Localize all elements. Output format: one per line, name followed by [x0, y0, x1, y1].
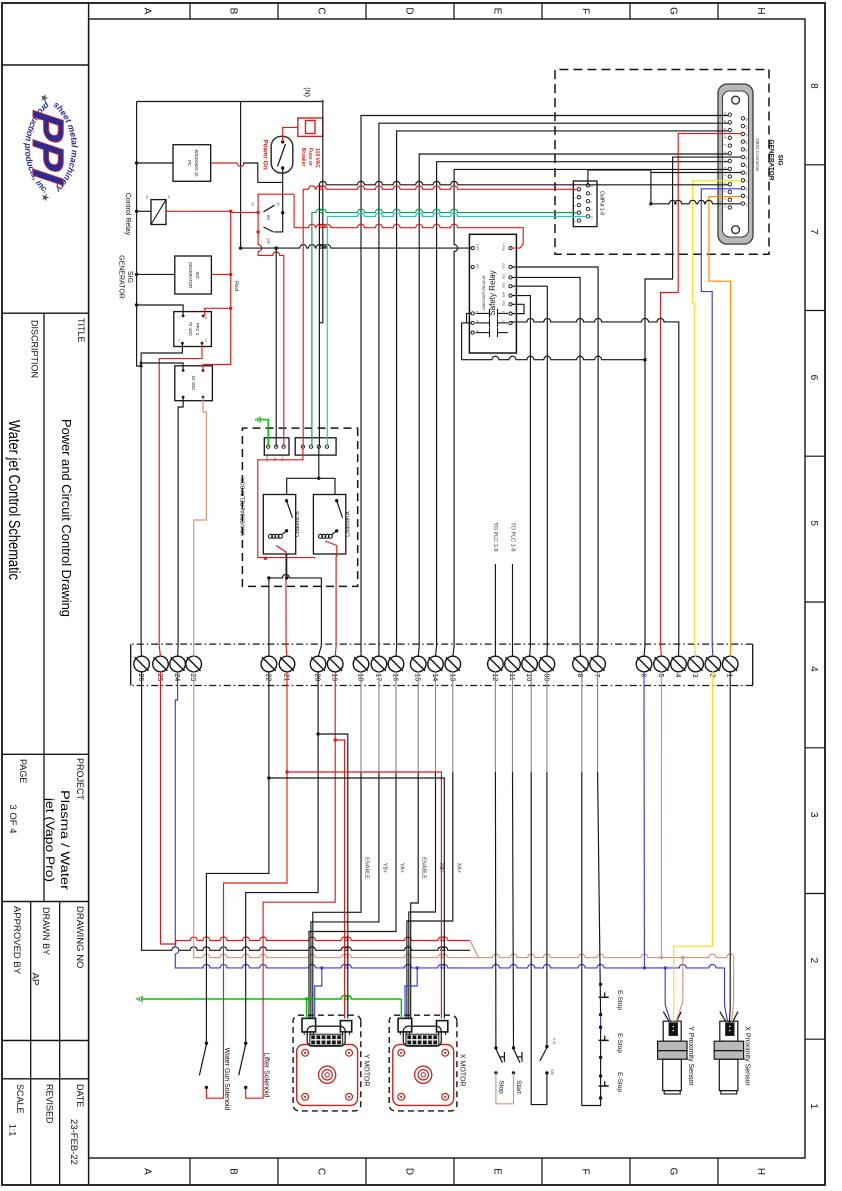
svg-text:+V: +V: [204, 338, 208, 342]
svg-text:E-Stop: E-Stop: [616, 1072, 623, 1092]
svg-text:20: 20: [314, 674, 321, 682]
svg-text:DRAWING NO: DRAWING NO: [74, 906, 85, 968]
svg-text:21: 21: [283, 674, 290, 682]
svg-text:Channel B: Channel B: [295, 511, 301, 537]
svg-text:23-FEB-22: 23-FEB-22: [68, 1119, 79, 1165]
svg-text:S34: S34: [502, 292, 506, 298]
svg-text:F: F: [580, 8, 591, 14]
svg-text:ENABLE: ENABLE: [421, 857, 427, 879]
svg-text:OutPut 1-8: OutPut 1-8: [599, 191, 605, 215]
svg-text:09: 09: [542, 674, 549, 682]
svg-text:B: B: [228, 1168, 239, 1175]
svg-text:1:1: 1:1: [8, 1124, 18, 1137]
svg-text:SIG: SIG: [777, 154, 784, 165]
svg-text:REVISED: REVISED: [45, 1084, 55, 1124]
svg-text:110 VAC: 110 VAC: [314, 148, 320, 168]
svg-text:C: C: [316, 7, 327, 14]
svg-text:-V: -V: [178, 339, 182, 342]
svg-text:DRAWN BY: DRAWN BY: [41, 907, 51, 955]
svg-text:S.34: S.34: [552, 1038, 556, 1045]
svg-text:14: 14: [744, 203, 748, 207]
svg-text:2: 2: [590, 185, 594, 187]
svg-text:TO PLC 1-8: TO PLC 1-8: [510, 522, 516, 551]
svg-text:ENABLE: ENABLE: [364, 857, 370, 879]
svg-text:PROJECT: PROJECT: [75, 758, 85, 801]
svg-text:C: C: [316, 1168, 327, 1175]
svg-text:1: 1: [808, 1103, 819, 1109]
svg-text:DISCRIPTION: DISCRIPTION: [30, 320, 40, 378]
svg-text:DATE: DATE: [75, 1084, 85, 1107]
svg-text:★: ★: [39, 193, 50, 202]
svg-text:PAGE: PAGE: [18, 759, 28, 783]
svg-text:Gnd: Gnd: [265, 456, 269, 462]
svg-text:PC: PC: [187, 160, 192, 166]
svg-text:D: D: [404, 1168, 415, 1175]
svg-text:Safety Relay: Safety Relay: [488, 270, 497, 315]
svg-text:10: 10: [723, 135, 727, 139]
svg-text:S13: S13: [502, 263, 506, 269]
svg-text:UNIVERSAL RELAY BOX: UNIVERSAL RELAY BOX: [241, 478, 247, 536]
svg-text:GENERATOR: GENERATOR: [118, 255, 125, 299]
svg-text:Y MOTOR: Y MOTOR: [362, 1054, 369, 1086]
svg-text:20: 20: [744, 156, 748, 160]
svg-text:19: 19: [744, 164, 748, 168]
svg-text:Plasma / Water: Plasma / Water: [58, 790, 72, 890]
svg-text:6: 6: [808, 375, 819, 381]
svg-text:A: A: [142, 8, 153, 15]
svg-text:3: 3: [808, 812, 819, 818]
svg-text:GENERATOR: GENERATOR: [188, 262, 193, 288]
svg-text:Red: Red: [233, 281, 239, 291]
svg-text:jet (Vapo Pro): jet (Vapo Pro): [43, 797, 57, 882]
svg-text:A2(-): A2(-): [476, 244, 480, 251]
svg-text:H: H: [755, 7, 766, 14]
svg-text:E: E: [492, 1168, 503, 1175]
svg-text:22: 22: [264, 674, 271, 682]
svg-text:H: H: [755, 1168, 766, 1175]
svg-text:15: 15: [414, 674, 421, 682]
svg-text:SIG: SIG: [195, 271, 200, 278]
svg-text:25: 25: [744, 118, 748, 122]
svg-text:18: 18: [744, 172, 748, 176]
svg-text:WINDOWS 10: WINDOWS 10: [194, 150, 199, 178]
svg-text:12: 12: [491, 674, 498, 682]
svg-text:14: 14: [431, 674, 438, 682]
svg-text:APPROVED BY: APPROVED BY: [11, 906, 22, 975]
svg-text:(N): (N): [273, 457, 277, 461]
svg-text:5: 5: [808, 520, 819, 526]
svg-text:24 VDC: 24 VDC: [191, 376, 196, 391]
svg-text:13: 13: [448, 674, 455, 682]
svg-text:11: 11: [508, 674, 515, 681]
svg-text:8: 8: [808, 83, 819, 89]
svg-text:Water jet Control Schematic: Water jet Control Schematic: [5, 420, 22, 580]
svg-text:23: 23: [189, 674, 196, 682]
svg-text:LOGIC/SAFE-RELAY-1B: LOGIC/SAFE-RELAY-1B: [482, 275, 486, 310]
svg-text:TO PLC 1-9: TO PLC 1-9: [492, 522, 498, 551]
svg-text:15: 15: [744, 195, 748, 199]
svg-text:F: F: [580, 1168, 591, 1174]
svg-text:D: D: [404, 7, 415, 14]
svg-text:E: E: [492, 8, 503, 15]
svg-text:S21: S21: [476, 263, 480, 269]
svg-text:Breaker: Breaker: [300, 148, 306, 167]
svg-text:7: 7: [593, 674, 600, 678]
svg-text:2: 2: [808, 958, 819, 964]
svg-text:14: 14: [251, 202, 255, 206]
svg-text:Channel A: Channel A: [345, 511, 351, 537]
svg-text:17: 17: [374, 674, 381, 682]
svg-text:3 OF 4: 3 OF 4: [7, 804, 18, 833]
svg-text:Water Gun Solenoid: Water Gun Solenoid: [223, 1048, 230, 1111]
svg-text:6: 6: [590, 201, 594, 203]
svg-text:16: 16: [392, 674, 399, 682]
svg-text:N: N: [204, 317, 208, 319]
svg-text:YB+: YB+: [381, 863, 387, 874]
svg-text:G: G: [668, 7, 679, 15]
svg-text:5: 5: [657, 674, 664, 678]
svg-text:26: 26: [137, 674, 144, 682]
svg-text:A: A: [142, 1168, 153, 1175]
svg-text:DB25 Connector: DB25 Connector: [755, 138, 760, 172]
svg-text:18: 18: [357, 674, 364, 682]
svg-text:24: 24: [744, 125, 748, 129]
svg-text:A1(+): A1(+): [502, 243, 506, 250]
svg-text:2: 2: [708, 674, 715, 678]
svg-text:4: 4: [808, 666, 819, 672]
svg-text:17: 17: [744, 180, 748, 184]
svg-text:Y Proximity Sensor: Y Proximity Sensor: [687, 1026, 694, 1086]
svg-text:E-Stop: E-Stop: [616, 990, 623, 1010]
svg-text:GENERATOR: GENERATOR: [768, 140, 775, 181]
svg-text:★: ★: [38, 94, 49, 103]
svg-text:CR: CR: [266, 238, 271, 244]
svg-text:24: 24: [173, 674, 180, 682]
svg-text:3: 3: [691, 674, 698, 678]
svg-text:4: 4: [674, 674, 681, 678]
svg-text:1: 1: [726, 674, 733, 678]
svg-text:E-Stop: E-Stop: [616, 1033, 623, 1053]
svg-text:Start: Start: [515, 1080, 522, 1094]
svg-text:Power On: Power On: [262, 139, 269, 169]
svg-text:7: 7: [808, 229, 819, 235]
svg-text:TITLE: TITLE: [76, 318, 86, 343]
svg-text:S22: S22: [502, 300, 506, 306]
svg-text:PPC 5: PPC 5: [195, 323, 200, 336]
svg-text:Hot: Hot: [281, 457, 285, 462]
svg-text:Lifter Solenoid: Lifter Solenoid: [263, 1053, 270, 1098]
svg-text:L: L: [178, 317, 182, 319]
svg-text:10: 10: [590, 216, 594, 220]
svg-text:G: G: [668, 1168, 679, 1176]
svg-text:(N): (N): [303, 87, 310, 97]
svg-text:6: 6: [640, 674, 647, 678]
svg-text:S33: S33: [550, 1069, 554, 1075]
svg-text:16: 16: [744, 187, 748, 191]
svg-text:B: B: [228, 8, 239, 15]
svg-text:75 VDC: 75 VDC: [188, 322, 193, 337]
svg-text:A1: A1: [167, 195, 171, 199]
svg-text:Control Relay: Control Relay: [124, 193, 131, 236]
svg-text:SCALE: SCALE: [15, 1084, 25, 1114]
svg-text:Stop: Stop: [498, 1080, 505, 1094]
svg-text:13: 13: [276, 202, 280, 206]
svg-text:Fuse or: Fuse or: [307, 148, 313, 166]
svg-text:S13: S13: [502, 273, 506, 279]
svg-text:25: 25: [156, 674, 163, 682]
svg-text:YA+: YA+: [399, 863, 405, 873]
svg-text:8: 8: [590, 209, 594, 211]
svg-text:23: 23: [744, 133, 748, 137]
svg-text:A2: A2: [145, 195, 149, 199]
svg-text:SIG: SIG: [126, 271, 133, 283]
svg-text:19: 19: [331, 674, 338, 682]
svg-text:BR: BR: [266, 215, 271, 221]
svg-text:AP: AP: [30, 973, 41, 986]
svg-text:S33: S33: [502, 282, 506, 288]
svg-text:4: 4: [590, 194, 594, 196]
svg-text:XA+: XA+: [455, 863, 461, 874]
svg-text:21: 21: [744, 149, 748, 153]
svg-text:22: 22: [744, 141, 748, 145]
svg-text:X MOTOR: X MOTOR: [458, 1054, 465, 1087]
svg-text:PPI: PPI: [23, 108, 72, 187]
svg-text:Power and Circuit Control Draw: Power and Circuit Control Drawing: [59, 419, 74, 617]
svg-text:X Proximity Sensor: X Proximity Sensor: [744, 1026, 751, 1086]
